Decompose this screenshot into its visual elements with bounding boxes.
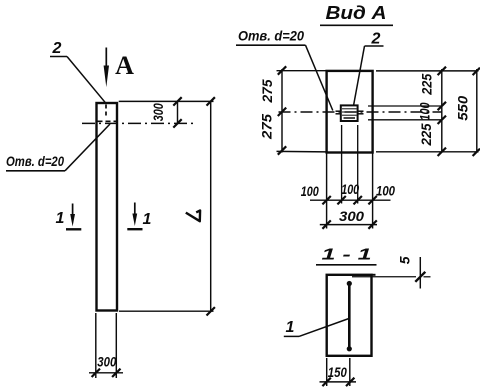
- leader from label 2 to column top: [67, 57, 106, 103]
- length dimension line L: [210, 101, 212, 311]
- plate bottom extension: [368, 119, 442, 121]
- right bottom extension: [376, 151, 479, 153]
- title underline: [316, 264, 377, 266]
- 150 dimension line: [320, 381, 357, 383]
- 300 dimension line (top): [177, 101, 179, 123]
- svg-text:300: 300: [339, 208, 364, 224]
- tick: [322, 196, 330, 204]
- bottom dimension line 300: [320, 224, 377, 226]
- bottom dimension line 100s: [310, 199, 391, 201]
- tick: [415, 272, 425, 282]
- top extension line: [119, 100, 214, 102]
- plan centre line: [279, 111, 442, 113]
- bottom extension line left: [95, 313, 97, 378]
- cover extension line: [352, 276, 416, 278]
- hole hidden edge (dashed vertical): [105, 105, 107, 118]
- tick: [207, 97, 215, 105]
- view arrow A shaft: [105, 48, 107, 71]
- leader to hole: [306, 45, 333, 110]
- rebar end dot top: [347, 281, 352, 286]
- bottom extension far right: [372, 153, 374, 229]
- plate hatch line: [342, 114, 357, 116]
- tick: [438, 116, 446, 124]
- tick: [278, 146, 286, 154]
- svg-text:100: 100: [418, 102, 433, 120]
- title underline: [320, 24, 393, 26]
- plate outline: [341, 105, 358, 121]
- hole dash left: [336, 110, 341, 112]
- svg-text:300: 300: [151, 103, 166, 121]
- hole dash left: [336, 113, 341, 115]
- tick: [368, 196, 376, 204]
- bottom extension plate left: [341, 125, 343, 204]
- svg-text:275: 275: [260, 79, 275, 104]
- label 2 underline: [50, 56, 67, 58]
- cover extension dash: [424, 276, 431, 278]
- leader from 2 to plate: [354, 46, 365, 105]
- svg-text:1 - 1: 1 - 1: [322, 247, 372, 264]
- outer right dimension line: [476, 69, 478, 153]
- section arrow right shaft: [134, 203, 136, 216]
- label 1 underline: [284, 335, 299, 337]
- tick: [473, 68, 480, 75]
- top extension left: [277, 70, 327, 72]
- bottom extension line right: [115, 313, 117, 378]
- bottom extension far left: [326, 153, 328, 229]
- tick: [337, 196, 345, 204]
- svg-text:100: 100: [341, 182, 359, 197]
- label 2 underline: [365, 45, 384, 47]
- inner right dimension line: [441, 69, 443, 153]
- hole hidden edge (dashed horizontal): [98, 120, 117, 122]
- bottom 300 dimension line: [89, 372, 123, 374]
- tick: [438, 67, 446, 75]
- extension below bar: [349, 358, 351, 386]
- tick: [278, 66, 286, 74]
- svg-text:150: 150: [328, 365, 347, 380]
- centre line of hole: [82, 122, 196, 124]
- leader from 1 to rebar: [299, 319, 349, 337]
- svg-text:100: 100: [301, 184, 319, 199]
- tick: [112, 369, 120, 377]
- svg-text:1: 1: [286, 319, 295, 336]
- script l length symbol: [186, 210, 200, 221]
- left dimension line: [281, 69, 283, 153]
- top edge overshoot: [372, 274, 376, 276]
- bottom extension left: [277, 150, 327, 153]
- section arrow left shaft: [72, 204, 74, 217]
- tick: [438, 102, 446, 110]
- section outline: [327, 275, 372, 356]
- tick: [207, 307, 215, 315]
- section bar left: [66, 228, 81, 230]
- tick: [368, 220, 376, 228]
- tick: [354, 196, 362, 204]
- label underline: [236, 44, 306, 46]
- svg-text:1: 1: [56, 210, 65, 227]
- plate top extension: [368, 105, 442, 107]
- extension below left: [326, 358, 328, 386]
- plate hatch line: [342, 108, 357, 110]
- section arrow right head: [132, 214, 137, 227]
- tick: [278, 108, 286, 116]
- rebar 1: [348, 282, 351, 351]
- section arrow left head: [70, 214, 75, 227]
- section bar right: [127, 228, 142, 230]
- leader to hole: [65, 124, 110, 171]
- view arrow A head: [104, 66, 109, 88]
- plate hatch line: [342, 111, 357, 113]
- svg-text:Отв. d=20: Отв. d=20: [6, 154, 64, 169]
- tick: [322, 220, 330, 228]
- tick: [473, 149, 480, 156]
- svg-text:550: 550: [455, 96, 471, 121]
- svg-text:2: 2: [371, 31, 381, 48]
- right top extension: [376, 70, 479, 72]
- svg-text:Вид А: Вид А: [326, 3, 387, 23]
- rebar end dot bottom: [347, 346, 352, 351]
- column outline: [97, 103, 118, 311]
- svg-text:А: А: [115, 51, 134, 80]
- hole dash right: [358, 113, 364, 115]
- tick: [92, 369, 100, 377]
- hole dash right: [358, 110, 364, 112]
- label underline: [6, 170, 65, 172]
- tick: [322, 378, 330, 386]
- plate hatch line: [344, 117, 356, 119]
- svg-text:1: 1: [143, 211, 152, 228]
- tick: [173, 119, 181, 127]
- tick: [438, 148, 446, 156]
- bottom extension line to L dim: [119, 310, 214, 312]
- svg-text:300: 300: [97, 355, 116, 370]
- svg-text:Отв. d=20: Отв. d=20: [238, 29, 304, 44]
- svg-text:2: 2: [52, 40, 62, 57]
- svg-text:225: 225: [420, 73, 435, 95]
- tick: [173, 97, 181, 105]
- tick: [346, 378, 354, 386]
- plan outline: [327, 71, 373, 153]
- bottom extension plate right: [357, 125, 359, 204]
- 5 dimension line: [419, 257, 421, 289]
- svg-text:225: 225: [419, 123, 434, 146]
- svg-text:275: 275: [260, 113, 275, 140]
- svg-text:100: 100: [376, 184, 395, 199]
- svg-text:5: 5: [397, 256, 413, 264]
